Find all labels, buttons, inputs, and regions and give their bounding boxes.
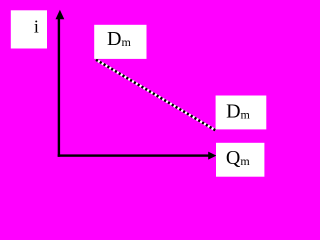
svg-text:i: i — [34, 17, 39, 37]
